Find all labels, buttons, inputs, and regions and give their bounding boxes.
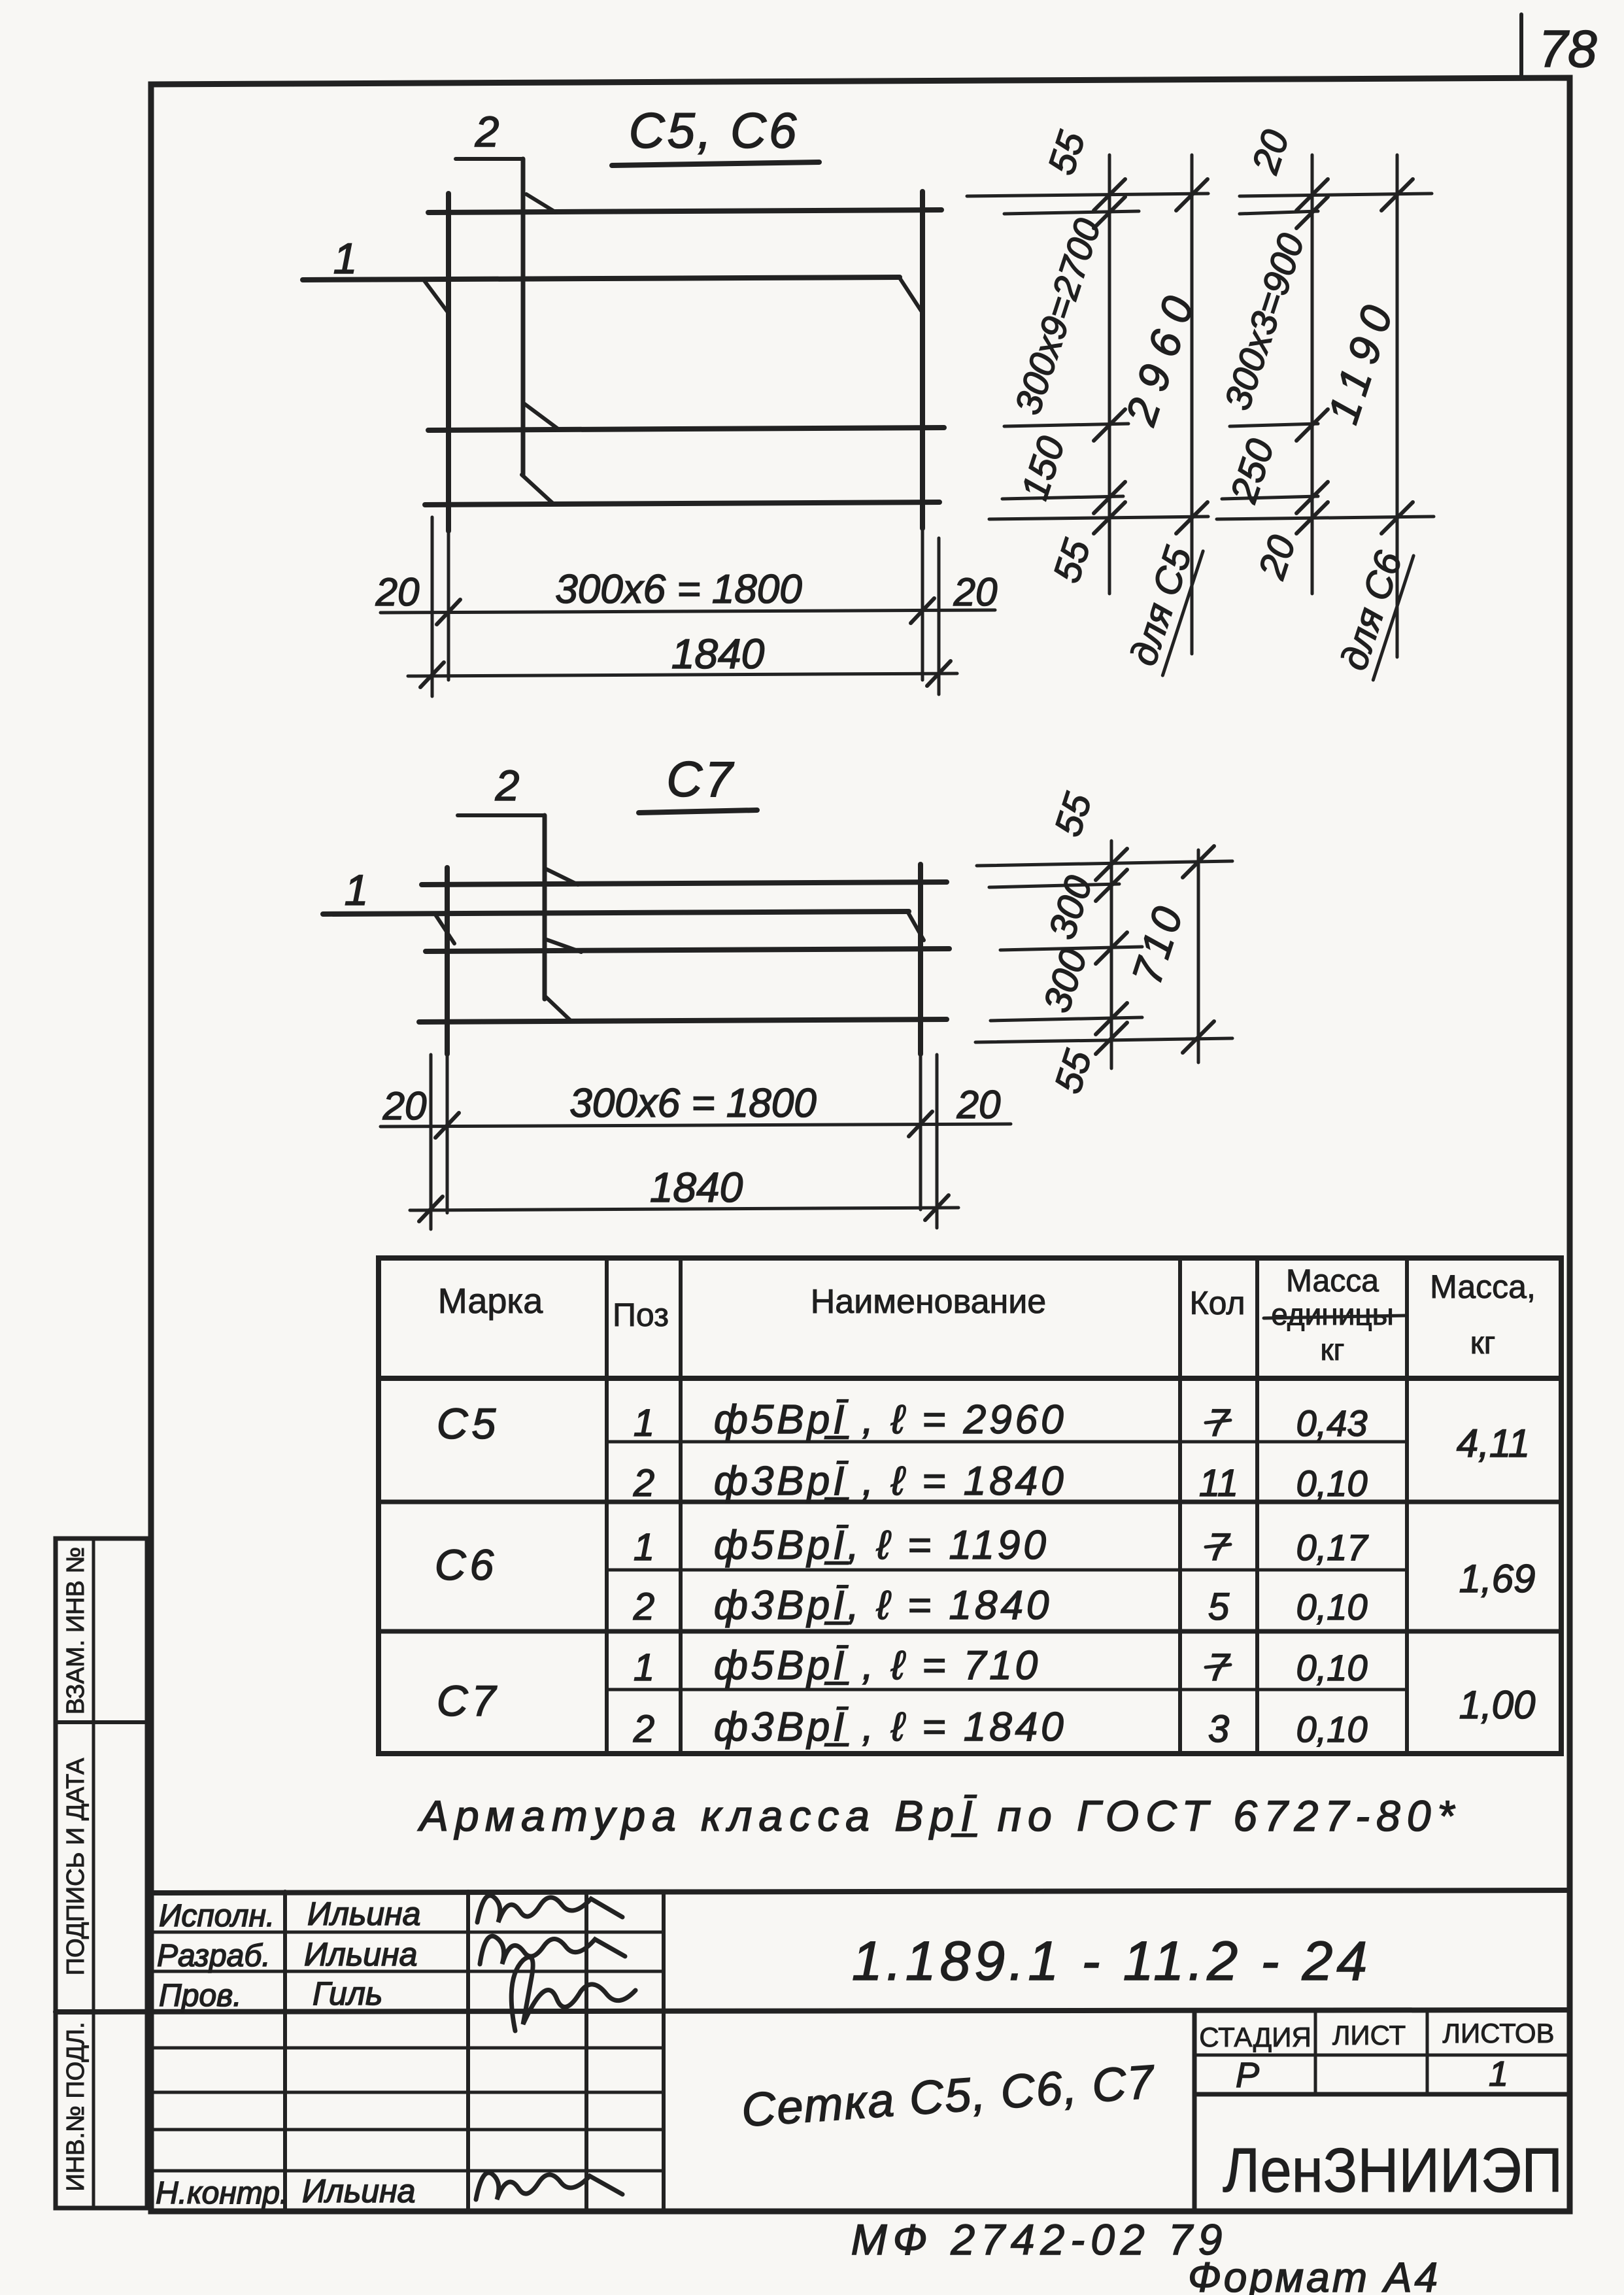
- svg-text:1: 1: [634, 1646, 654, 1689]
- svg-text:ф5ВрĪ̲ , ℓ = 710: ф5ВрĪ̲ , ℓ = 710: [714, 1643, 1041, 1688]
- hook right wire1: [900, 278, 922, 312]
- hook top wire2: [526, 194, 555, 212]
- tick: [909, 1112, 932, 1136]
- svg-text:Р: Р: [1236, 2056, 1259, 2095]
- dim extension left outer: [431, 517, 434, 696]
- chain C6 cross 4: [1222, 496, 1318, 499]
- empty row line 1: [151, 2047, 664, 2050]
- svg-text:С5, С6: С5, С6: [629, 103, 800, 159]
- svg-text:2: 2: [633, 1462, 654, 1504]
- svg-text:С6: С6: [435, 1540, 498, 1589]
- svg-text:20: 20: [1243, 125, 1297, 178]
- stadia values bottom: [1194, 2092, 1570, 2097]
- dim extension right inner: [921, 528, 924, 680]
- chain cross 3: [1000, 947, 1142, 950]
- svg-text:ЛИСТОВ: ЛИСТОВ: [1442, 2018, 1554, 2048]
- svg-text:ПОДПИСЬ И ДАТА: ПОДПИСЬ И ДАТА: [62, 1758, 90, 1975]
- column line Наименование/Кол: [1178, 1258, 1182, 1754]
- svg-text:Исполн.: Исполн.: [159, 1899, 275, 1933]
- svg-text:ИНВ.№ ПОДЛ.: ИНВ.№ ПОДЛ.: [62, 2022, 90, 2191]
- hook wire2 row1: [545, 868, 578, 885]
- empty row line 3: [151, 2128, 664, 2132]
- svg-text:Ильина: Ильина: [302, 2173, 415, 2209]
- chain cross line bottom: [989, 517, 1208, 519]
- dim extension left outer: [430, 1055, 433, 1229]
- svg-text:1: 1: [345, 866, 369, 914]
- dim line 300x6=1800: [381, 610, 995, 613]
- svg-text:55: 55: [1047, 788, 1100, 841]
- svg-text:Кол: Кол: [1189, 1285, 1245, 1321]
- chain C6 cross bottom: [1217, 517, 1434, 519]
- svg-text:1.189.1 - 11.2 - 24: 1.189.1 - 11.2 - 24: [852, 1930, 1371, 1992]
- svg-text:0,43: 0,43: [1296, 1402, 1368, 1444]
- svg-text:78: 78: [1539, 20, 1597, 78]
- svg-text:Пров.: Пров.: [159, 1979, 242, 2013]
- svg-text:0,10: 0,10: [1296, 1708, 1368, 1750]
- stadia/list divider: [1314, 2011, 1317, 2094]
- left block right edge: [662, 1892, 666, 2211]
- tick: [927, 661, 951, 686]
- svg-text:1: 1: [333, 234, 358, 282]
- chain cross 2: [989, 884, 1119, 887]
- dim extension right inner: [919, 1054, 922, 1210]
- left block column line 1: [283, 1892, 287, 2211]
- column line Кол/Масса ед: [1255, 1258, 1259, 1754]
- svg-text:1840: 1840: [671, 630, 765, 677]
- svg-text:55: 55: [1045, 534, 1099, 588]
- page number tick: [1519, 14, 1523, 78]
- hook right wire1: [907, 911, 924, 940]
- svg-text:ВЗАМ. ИНВ №: ВЗАМ. ИНВ №: [62, 1547, 90, 1715]
- svg-text:1,00: 1,00: [1459, 1683, 1536, 1727]
- svg-text:1: 1: [634, 1526, 654, 1569]
- wire 1 (pos.1): [303, 277, 900, 280]
- chain cross line 2: [1004, 211, 1139, 214]
- tick: [420, 662, 444, 687]
- column line Масса ед/Масса: [1405, 1258, 1409, 1754]
- dim line 1840: [410, 1208, 958, 1210]
- svg-text:55: 55: [1047, 1045, 1100, 1098]
- svg-text:ЛИСТ: ЛИСТ: [1332, 2020, 1406, 2050]
- tick: [911, 598, 934, 623]
- svg-text:0,10: 0,10: [1296, 1586, 1368, 1627]
- row line C6/C7: [379, 1629, 1561, 1634]
- right vertical wire: [918, 864, 923, 1054]
- label dlya C5: [1121, 537, 1203, 675]
- hook wire2 row2: [523, 403, 559, 430]
- chain cross line 3: [1004, 424, 1128, 426]
- chain C6 overall line 1190: [1396, 155, 1399, 657]
- svg-text:кг: кг: [1470, 1326, 1496, 1361]
- header bottom line: [379, 1376, 1561, 1381]
- svg-text:С5: С5: [437, 1399, 499, 1448]
- wire 1 (pos.1): [323, 911, 909, 914]
- svg-text:Наименование: Наименование: [811, 1283, 1046, 1321]
- svg-text:300х6 = 1800: 300х6 = 1800: [569, 1081, 817, 1126]
- svg-text:ф3ВрĪ̲ , ℓ = 1840: ф3ВрĪ̲ , ℓ = 1840: [714, 1459, 1067, 1504]
- svg-text:0,10: 0,10: [1296, 1463, 1368, 1504]
- signature 4: [476, 2173, 622, 2200]
- svg-text:Разраб.: Разраб.: [157, 1939, 271, 1973]
- svg-text:ф3ВрĪ̲ , ℓ = 1840: ф3ВрĪ̲ , ℓ = 1840: [714, 1705, 1067, 1750]
- svg-text:1: 1: [1489, 2054, 1508, 2094]
- tick: [925, 1195, 949, 1220]
- row line ispoln/razrab: [151, 1931, 664, 1934]
- svg-text:0,17: 0,17: [1296, 1527, 1369, 1568]
- hook wire2 row2: [545, 939, 581, 952]
- svg-text:20: 20: [382, 1084, 427, 1128]
- margin divider vzam/podpis: [56, 1720, 147, 1724]
- title block top line: [151, 1890, 1570, 1893]
- svg-text:20: 20: [1250, 530, 1304, 584]
- svg-text:Формат А4: Формат А4: [1188, 2254, 1440, 2295]
- svg-text:для С5: для С5: [1122, 541, 1200, 671]
- center/right divider: [1193, 2011, 1197, 2211]
- svg-text:Ильина: Ильина: [304, 1936, 417, 1973]
- svg-text:150: 150: [1013, 432, 1074, 505]
- signature 1: [477, 1895, 622, 1922]
- chain C5 overall line 2960: [1191, 155, 1194, 654]
- thick middle line: [56, 2010, 1570, 2012]
- svg-text:1,69: 1,69: [1459, 1557, 1536, 1601]
- title underline: [639, 810, 757, 813]
- svg-text:МФ 2742-02 79: МФ 2742-02 79: [851, 2215, 1228, 2264]
- wire 2 vertical (pos.2): [543, 815, 547, 999]
- svg-text:1840: 1840: [650, 1164, 743, 1211]
- chain C6 cross 3: [1230, 424, 1318, 426]
- left vertical wire: [445, 868, 450, 1054]
- column line Поз/Наименование: [679, 1258, 683, 1754]
- tick: [435, 1113, 459, 1138]
- dim extension left inner: [447, 531, 450, 680]
- cross wire row 2: [428, 428, 944, 430]
- svg-text:ф3ВрĪ̲, ℓ = 1840: ф3ВрĪ̲, ℓ = 1840: [714, 1583, 1052, 1628]
- row line C6 inner: [607, 1569, 1407, 1572]
- dim line 300x6=1800: [381, 1124, 1011, 1127]
- chain C6 cross top: [1240, 194, 1432, 196]
- svg-text:Масса,: Масса,: [1430, 1268, 1536, 1305]
- hook wire2 row3: [522, 475, 554, 504]
- table outer border: [379, 1258, 1561, 1754]
- svg-text:3: 3: [1208, 1708, 1229, 1750]
- empty row line 2: [151, 2091, 664, 2094]
- chain cross 4: [990, 1017, 1142, 1021]
- svg-text:СТАДИЯ: СТАДИЯ: [1199, 2022, 1311, 2052]
- stadia header bottom: [1194, 2054, 1570, 2057]
- cross wire row 2: [426, 949, 949, 951]
- chain C6 cross 2: [1240, 211, 1318, 214]
- svg-text:С7: С7: [437, 1676, 499, 1725]
- cross wire row 3: [419, 1019, 947, 1022]
- margin stack inner vertical: [92, 1538, 95, 2208]
- svg-text:20: 20: [953, 570, 998, 614]
- svg-text:2: 2: [633, 1708, 654, 1750]
- cross wire row 1: [428, 210, 941, 212]
- svg-text:ЛенЗНИИЭП: ЛенЗНИИЭП: [1223, 2135, 1563, 2205]
- leader wire 2: [458, 813, 545, 817]
- svg-text:Марка: Марка: [438, 1282, 543, 1321]
- title underline: [612, 162, 819, 165]
- svg-text:Поз: Поз: [613, 1297, 669, 1333]
- svg-text:1: 1: [634, 1402, 654, 1444]
- margin stack outer box: [56, 1538, 147, 2208]
- signature 3: [511, 1957, 635, 2031]
- chain cross line 4: [1002, 496, 1123, 499]
- chain C7 overall line 710: [1197, 850, 1200, 1062]
- left block column line 3: [584, 1892, 588, 2211]
- list/listov divider: [1426, 2011, 1429, 2094]
- column line Марка/Поз: [605, 1258, 609, 1754]
- chain cross top: [977, 861, 1232, 866]
- svg-text:11: 11: [1199, 1462, 1238, 1504]
- chain cross line top: [967, 194, 1208, 196]
- svg-text:Арматура класса ВрĪ̲ по Г: Арматура класса ВрĪ̲ по ГОСТ 6727-80*: [417, 1792, 1461, 1840]
- svg-text:ф5ВрĪ̲ , ℓ = 2960: ф5ВрĪ̲ , ℓ = 2960: [714, 1397, 1067, 1442]
- svg-text:ф5ВрĪ̲, ℓ = 1190: ф5ВрĪ̲, ℓ = 1190: [714, 1523, 1049, 1568]
- cross wire row 3: [425, 502, 939, 505]
- wire 2 vertical (pos.2): [521, 159, 526, 475]
- svg-text:20: 20: [375, 570, 420, 614]
- dim extension right outer: [936, 1055, 939, 1228]
- row line razrab/prov: [151, 1970, 664, 1973]
- svg-text:55: 55: [1040, 126, 1094, 180]
- svg-text:300: 300: [1041, 871, 1101, 944]
- chain C5 ticks: [1094, 179, 1208, 534]
- cross wire row 1: [422, 882, 947, 885]
- svg-text:Масса: Масса: [1286, 1264, 1379, 1299]
- chain C6 ticks: [1296, 179, 1413, 534]
- label dlya C6: [1331, 542, 1413, 680]
- svg-text:С7: С7: [666, 752, 735, 807]
- row line C5 inner: [607, 1440, 1407, 1444]
- svg-text:Сетка С5, С6, С7: Сетка С5, С6, С7: [740, 2056, 1157, 2137]
- hook left wire1: [435, 915, 454, 943]
- svg-text:20: 20: [956, 1083, 1001, 1127]
- svg-text:710: 710: [1123, 898, 1193, 990]
- chain C5 vertical: [1108, 155, 1111, 594]
- right vertical wire: [920, 192, 925, 528]
- svg-text:Гиль: Гиль: [313, 1975, 382, 2012]
- svg-text:2: 2: [475, 107, 499, 156]
- svg-text:4,11: 4,11: [1457, 1421, 1530, 1465]
- left vertical wire: [446, 194, 451, 531]
- tick: [437, 600, 460, 624]
- svg-text:Н.контр.: Н.контр.: [156, 2176, 288, 2211]
- dim extension left inner: [446, 1054, 449, 1213]
- chain C7 ticks: [1096, 846, 1214, 1054]
- hook wire2 row3: [545, 996, 571, 1021]
- svg-text:единицы: единицы: [1271, 1297, 1394, 1331]
- dim line 1840: [408, 673, 957, 676]
- row line C7 inner: [607, 1688, 1407, 1691]
- chain C6 vertical: [1311, 155, 1314, 594]
- chain C7 vertical: [1110, 841, 1113, 1068]
- tick: [419, 1197, 443, 1221]
- dim extension right outer: [938, 538, 941, 694]
- hook left wire1: [424, 280, 448, 313]
- svg-text:0,10: 0,10: [1296, 1647, 1368, 1688]
- svg-text:300х6 = 1800: 300х6 = 1800: [555, 567, 802, 612]
- left block column line 2: [466, 1892, 470, 2211]
- svg-text:300х3=900: 300х3=900: [1216, 229, 1311, 415]
- svg-text:2: 2: [495, 761, 520, 809]
- chain cross bottom: [975, 1038, 1232, 1042]
- svg-text:Ильина: Ильина: [307, 1895, 420, 1932]
- svg-text:2: 2: [633, 1586, 654, 1628]
- leader wire 2: [456, 157, 523, 161]
- svg-text:кг: кг: [1321, 1333, 1345, 1367]
- svg-text:300х9=2700: 300х9=2700: [1007, 214, 1109, 419]
- row line C5/C6: [379, 1500, 1561, 1504]
- svg-text:300: 300: [1036, 944, 1096, 1017]
- empty row line 4: [151, 2169, 664, 2173]
- signature 2: [480, 1936, 625, 1964]
- svg-text:1190: 1190: [1318, 291, 1404, 429]
- svg-text:5: 5: [1208, 1586, 1230, 1628]
